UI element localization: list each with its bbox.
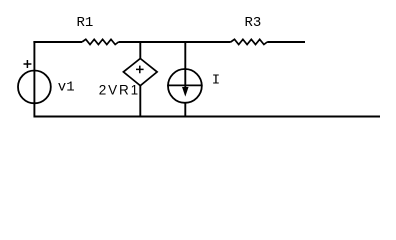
plus sign of 2VR1: [136, 66, 144, 74]
svg-text:R3: R3: [245, 15, 262, 31]
current source horizontal bar: [167, 84, 202, 86]
current source I (circle): [168, 69, 202, 103]
wire left vertical (V1 branch): [33, 41, 35, 117]
wire current source bottom stub: [184, 103, 186, 118]
wire diamond top stub: [139, 41, 141, 58]
dependent source 2VR1 (diamond): [123, 59, 157, 86]
current source arrowhead: [183, 87, 188, 95]
wire bottom (ground rail): [34, 116, 381, 118]
wire top left (node between V1 and R1): [33, 41, 82, 43]
svg-text:v1: v1: [58, 80, 75, 96]
wire top middle (node A: R1 right to R3 left): [119, 41, 231, 43]
wire current source top stub: [184, 41, 186, 93]
resistor R3: [231, 39, 268, 44]
svg-text:R1: R1: [77, 15, 94, 31]
voltage source V1: [18, 71, 51, 104]
svg-text:2VR1: 2VR1: [99, 83, 140, 98]
svg-text:I: I: [212, 72, 220, 88]
resistor R1: [82, 39, 119, 44]
wire diamond bottom stub: [139, 86, 141, 117]
plus sign of V1: [24, 60, 32, 68]
wire top right (open end after R3): [267, 41, 305, 43]
